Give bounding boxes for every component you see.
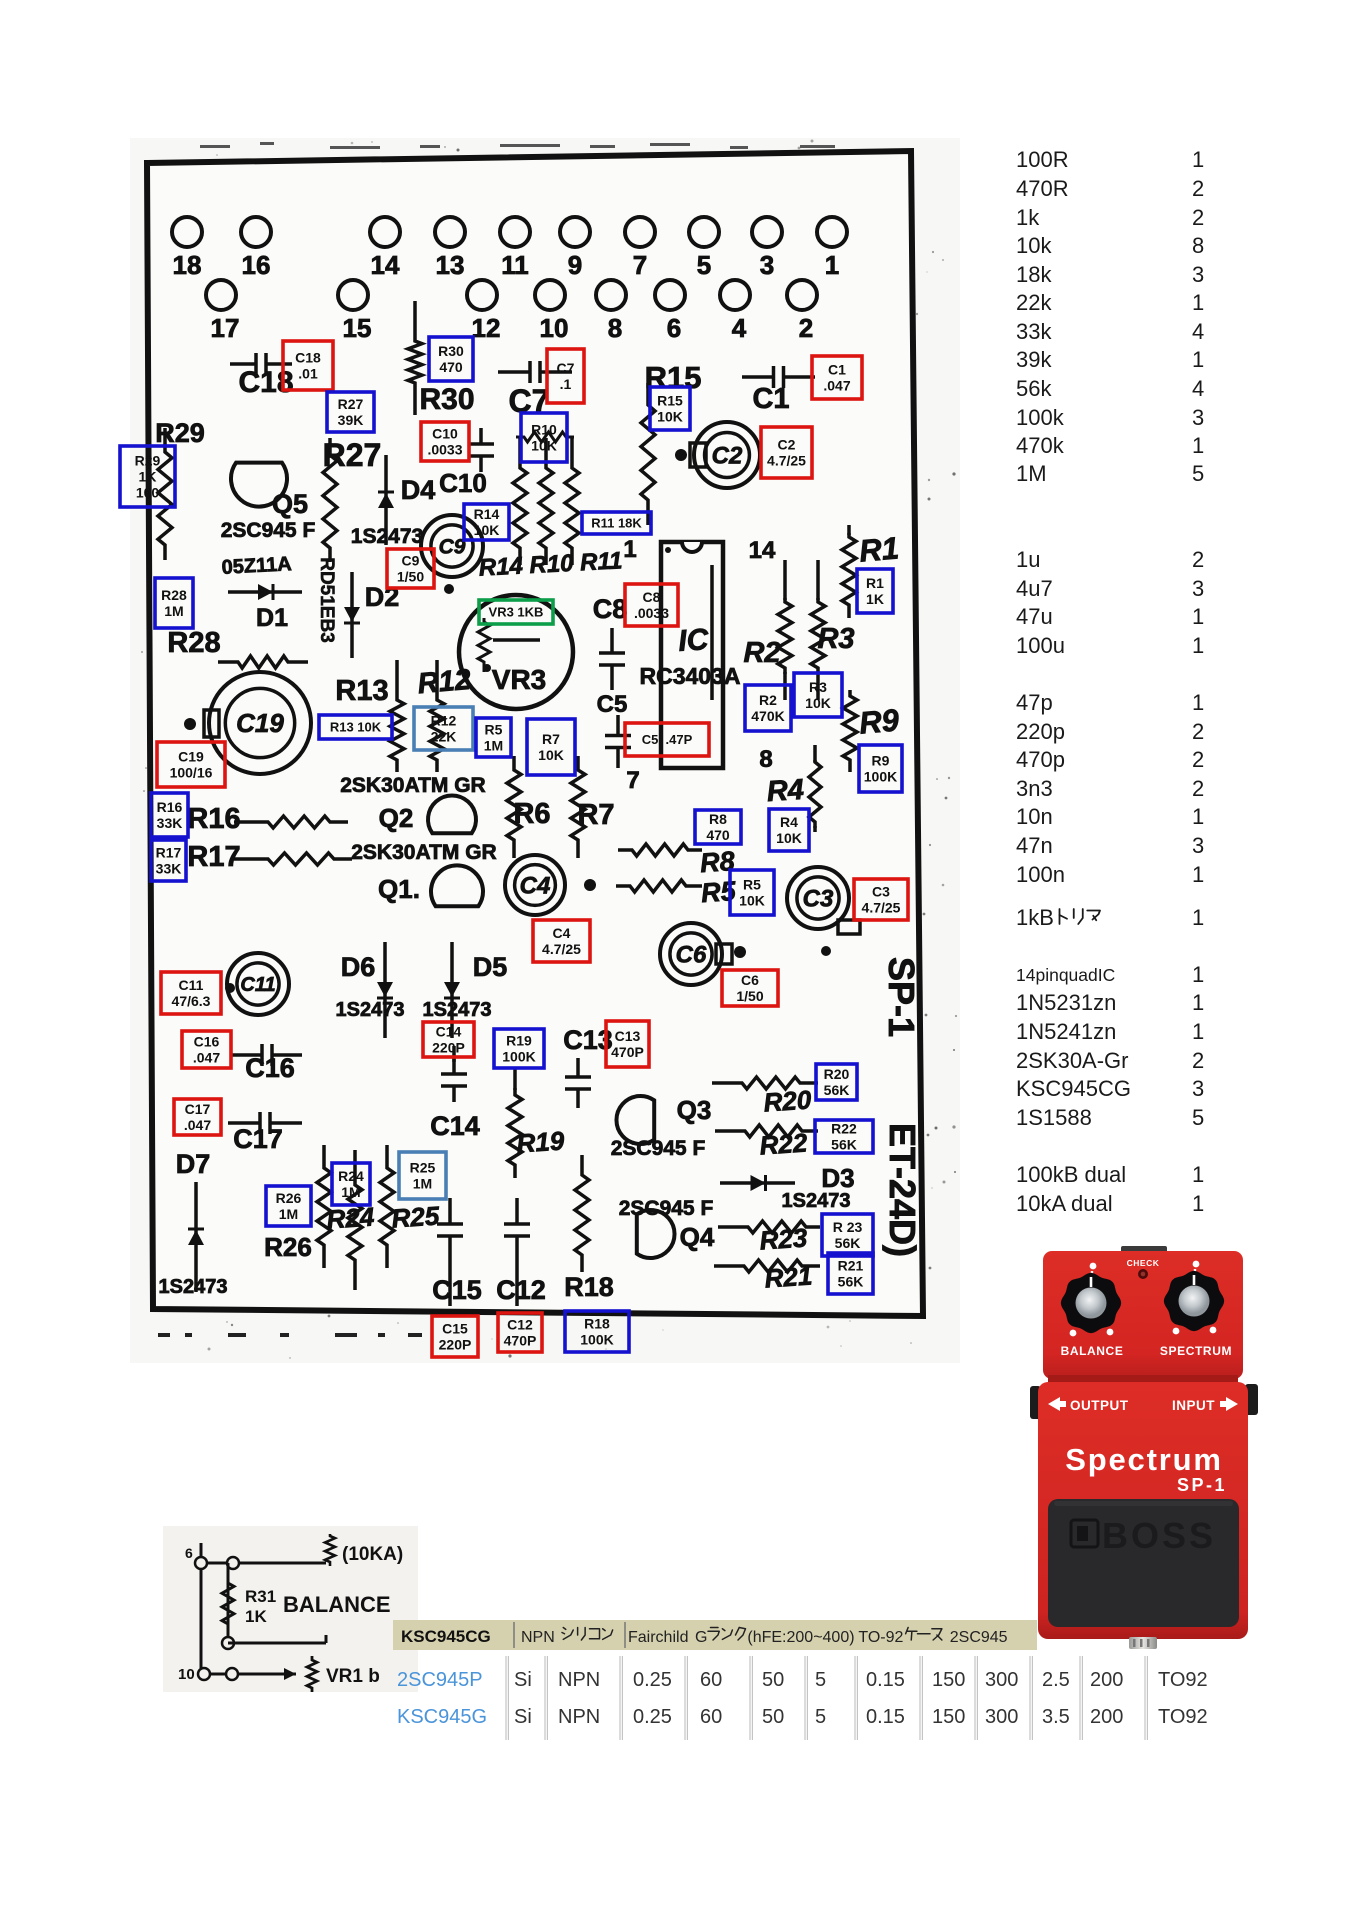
svg-text:C15: C15	[442, 1321, 468, 1337]
svg-text:R16: R16	[187, 803, 240, 835]
svg-text:33k: 33k	[1016, 319, 1052, 344]
svg-text:R1: R1	[858, 530, 901, 568]
svg-text:R7: R7	[577, 799, 614, 831]
svg-text:1kB: 1kB	[1016, 905, 1054, 930]
svg-text:D5: D5	[473, 952, 508, 982]
svg-text:8: 8	[1192, 233, 1204, 258]
svg-text:R13 10K: R13 10K	[330, 720, 382, 735]
svg-text:R3: R3	[817, 623, 854, 655]
svg-text:1M: 1M	[413, 1176, 432, 1192]
svg-text:22k: 22k	[1016, 290, 1052, 315]
svg-text:39k: 39k	[1016, 347, 1052, 372]
svg-text:3: 3	[1192, 1076, 1204, 1101]
svg-text:C1: C1	[752, 383, 789, 415]
svg-text:10K: 10K	[538, 747, 564, 763]
svg-text:4.7/25: 4.7/25	[542, 941, 581, 957]
svg-text:2SC945: 2SC945	[950, 1629, 1008, 1646]
svg-text:1S1588: 1S1588	[1016, 1105, 1092, 1130]
svg-text:R9: R9	[858, 702, 901, 740]
svg-text:C6: C6	[741, 972, 759, 988]
svg-text:C2: C2	[712, 442, 743, 469]
svg-text:C16: C16	[245, 1053, 295, 1083]
svg-text:1: 1	[1192, 905, 1204, 930]
svg-text:.0033: .0033	[634, 605, 669, 621]
svg-text:D3: D3	[821, 1163, 854, 1193]
svg-text:5: 5	[1192, 1105, 1204, 1130]
svg-text:300: 300	[985, 1706, 1018, 1728]
svg-text:C6: C6	[676, 941, 707, 968]
svg-text:39K: 39K	[338, 412, 364, 428]
svg-text:2SC945 F: 2SC945 F	[611, 1137, 706, 1160]
svg-text:470: 470	[706, 827, 730, 843]
svg-text:100k: 100k	[1016, 405, 1065, 430]
svg-text:1: 1	[1192, 1162, 1204, 1187]
svg-text:R19: R19	[516, 1125, 566, 1158]
svg-text:16: 16	[242, 250, 271, 280]
svg-text:Q2: Q2	[379, 803, 414, 833]
svg-text:3: 3	[1192, 833, 1204, 858]
svg-text:2: 2	[1192, 176, 1204, 201]
svg-text:14: 14	[749, 537, 776, 564]
svg-text:C3: C3	[803, 885, 834, 912]
svg-text:3: 3	[760, 250, 774, 280]
svg-text:3: 3	[1192, 576, 1204, 601]
svg-text:0.25: 0.25	[633, 1706, 672, 1728]
svg-text:100u: 100u	[1016, 633, 1065, 658]
svg-text:C17: C17	[185, 1101, 211, 1117]
svg-text:C11: C11	[240, 974, 275, 996]
svg-text:18: 18	[173, 250, 202, 280]
svg-text:IC: IC	[677, 623, 711, 658]
svg-text:(hFE:200~400): (hFE:200~400)	[747, 1629, 854, 1646]
svg-text:05Z11A: 05Z11A	[221, 553, 292, 579]
svg-text:D1: D1	[256, 604, 288, 632]
svg-text:C10: C10	[439, 468, 487, 498]
svg-text:1N5231zn: 1N5231zn	[1016, 990, 1116, 1015]
svg-text:R10: R10	[531, 422, 557, 438]
svg-text:150: 150	[932, 1706, 965, 1728]
svg-text:1: 1	[1192, 433, 1204, 458]
svg-text:5: 5	[697, 250, 711, 280]
svg-text:C9: C9	[439, 535, 466, 558]
svg-text:470K: 470K	[751, 708, 784, 724]
svg-text:C3: C3	[872, 884, 890, 900]
svg-text:6: 6	[185, 1545, 193, 1561]
svg-text:NPN: NPN	[558, 1669, 600, 1691]
svg-text:R18: R18	[584, 1316, 610, 1332]
svg-text:4: 4	[1192, 319, 1204, 344]
svg-text:R16: R16	[157, 799, 183, 815]
svg-text:1M: 1M	[341, 1184, 360, 1200]
svg-text:10K: 10K	[776, 830, 802, 846]
svg-text:100kB dual: 100kB dual	[1016, 1162, 1126, 1187]
svg-text:R20: R20	[824, 1066, 850, 1082]
svg-text:BALANCE: BALANCE	[1061, 1344, 1124, 1358]
svg-text:Q5: Q5	[272, 489, 308, 519]
svg-text:4u7: 4u7	[1016, 576, 1053, 601]
svg-text:33K: 33K	[156, 861, 182, 877]
svg-text:C18: C18	[295, 350, 321, 366]
svg-text:C19: C19	[236, 708, 284, 738]
svg-text:220P: 220P	[439, 1337, 472, 1353]
svg-text:R23: R23	[759, 1222, 809, 1255]
svg-text:10K: 10K	[739, 893, 765, 909]
svg-text:1K: 1K	[866, 591, 884, 607]
svg-text:1S2473: 1S2473	[782, 1190, 851, 1212]
svg-text:0.15: 0.15	[866, 1706, 905, 1728]
svg-text:C8: C8	[593, 594, 628, 624]
svg-text:OUTPUT: OUTPUT	[1070, 1398, 1129, 1413]
svg-text:C12: C12	[507, 1317, 533, 1333]
svg-text:C9: C9	[402, 553, 420, 569]
svg-text:C15: C15	[432, 1275, 482, 1305]
svg-text:R2: R2	[743, 637, 780, 669]
svg-text:NPN: NPN	[558, 1706, 600, 1728]
svg-text:SPECTRUM: SPECTRUM	[1160, 1344, 1232, 1358]
svg-text:1: 1	[1192, 147, 1204, 172]
svg-text:1: 1	[825, 250, 839, 280]
svg-text:2: 2	[1192, 547, 1204, 572]
svg-text:(10KA): (10KA)	[342, 1544, 403, 1565]
svg-text:SP-1: SP-1	[1177, 1475, 1227, 1495]
svg-text:1/50: 1/50	[397, 569, 424, 585]
svg-text:18k: 18k	[1016, 262, 1052, 287]
svg-text:NPN: NPN	[521, 1629, 555, 1646]
svg-text:2SC945 F: 2SC945 F	[221, 519, 316, 542]
svg-text:17: 17	[211, 313, 240, 343]
svg-text:R22: R22	[831, 1121, 857, 1137]
svg-text:100/16: 100/16	[170, 765, 213, 781]
svg-text:300: 300	[985, 1669, 1018, 1691]
svg-text:R9: R9	[872, 753, 890, 769]
svg-text:56K: 56K	[824, 1082, 850, 1098]
svg-text:10K: 10K	[474, 522, 500, 538]
svg-text:1: 1	[1192, 1191, 1204, 1216]
svg-text:R27: R27	[338, 396, 364, 412]
svg-text:15: 15	[343, 313, 372, 343]
svg-text:C10: C10	[432, 426, 458, 442]
svg-text:2: 2	[1192, 719, 1204, 744]
svg-text:D7: D7	[176, 1149, 211, 1179]
svg-text:14: 14	[371, 250, 400, 280]
svg-text:13: 13	[436, 250, 465, 280]
svg-text:470: 470	[439, 359, 463, 375]
svg-text:200: 200	[1090, 1669, 1123, 1691]
svg-text:10k: 10k	[1016, 233, 1052, 258]
svg-text:470R: 470R	[1016, 176, 1069, 201]
svg-text:2SC945 F: 2SC945 F	[619, 1197, 714, 1220]
svg-text:2: 2	[1192, 747, 1204, 772]
svg-text:100K: 100K	[864, 769, 897, 785]
svg-text:1S2473: 1S2473	[159, 1276, 228, 1298]
svg-text:G: G	[695, 1629, 707, 1646]
svg-text:.1: .1	[560, 376, 572, 392]
svg-text:3n3: 3n3	[1016, 776, 1053, 801]
svg-text:1: 1	[1192, 604, 1204, 629]
svg-text:.047: .047	[193, 1050, 220, 1066]
svg-text:R31: R31	[245, 1587, 276, 1606]
svg-text:R27: R27	[323, 437, 382, 473]
svg-text:ET-24D): ET-24D)	[882, 1123, 923, 1257]
svg-text:1: 1	[1192, 690, 1204, 715]
svg-text:1: 1	[1192, 1019, 1204, 1044]
svg-text:4: 4	[1192, 376, 1204, 401]
svg-text:C8: C8	[643, 589, 661, 605]
svg-text:6: 6	[667, 313, 681, 343]
svg-text:1: 1	[1192, 347, 1204, 372]
svg-text:220P: 220P	[432, 1040, 465, 1056]
svg-text:1: 1	[623, 536, 636, 563]
svg-text:100n: 100n	[1016, 862, 1065, 887]
svg-text:1S2473: 1S2473	[336, 999, 405, 1021]
svg-text:1S2473: 1S2473	[351, 525, 423, 548]
svg-text:1k: 1k	[1016, 205, 1040, 230]
svg-text:R26: R26	[276, 1190, 302, 1206]
svg-text:2.5: 2.5	[1042, 1669, 1070, 1691]
svg-text:R4: R4	[766, 774, 805, 809]
svg-text:1M: 1M	[484, 738, 503, 754]
svg-text:INPUT: INPUT	[1172, 1398, 1215, 1413]
svg-text:Fairchild: Fairchild	[628, 1629, 688, 1646]
svg-text:150: 150	[932, 1669, 965, 1691]
svg-text:50: 50	[762, 1669, 784, 1691]
svg-text:C17: C17	[233, 1124, 283, 1154]
svg-text:C16: C16	[194, 1034, 220, 1050]
svg-text:R30: R30	[438, 343, 464, 359]
svg-text:RD51EB3: RD51EB3	[316, 557, 337, 643]
svg-text:10kA dual: 10kA dual	[1016, 1191, 1113, 1216]
svg-text:TO92: TO92	[1158, 1706, 1208, 1728]
svg-text:5: 5	[815, 1706, 826, 1728]
svg-text:470P: 470P	[611, 1044, 644, 1060]
svg-text:R21: R21	[838, 1258, 864, 1274]
svg-text:R19: R19	[506, 1033, 532, 1049]
svg-text:10n: 10n	[1016, 804, 1053, 829]
svg-text:BOSS: BOSS	[1102, 1515, 1216, 1556]
svg-text:47n: 47n	[1016, 833, 1053, 858]
svg-text:R5: R5	[485, 722, 503, 738]
svg-text:D6: D6	[341, 952, 376, 982]
svg-text:56K: 56K	[838, 1274, 864, 1290]
svg-text:R28: R28	[161, 587, 187, 603]
svg-text:Q4: Q4	[680, 1222, 715, 1252]
svg-text:R28: R28	[167, 627, 220, 659]
svg-text:C19: C19	[178, 749, 204, 765]
svg-text:2: 2	[799, 313, 813, 343]
svg-text:C5 .47P: C5 .47P	[642, 732, 693, 747]
svg-text:SP-1: SP-1	[881, 957, 922, 1037]
svg-text:0.15: 0.15	[866, 1669, 905, 1691]
svg-text:R6: R6	[513, 798, 550, 830]
svg-text:R15: R15	[645, 360, 702, 395]
svg-text:R17: R17	[156, 845, 182, 861]
svg-text:100K: 100K	[502, 1049, 535, 1065]
svg-text:.047: .047	[184, 1117, 211, 1133]
svg-text:11: 11	[501, 250, 529, 280]
svg-text:4: 4	[732, 313, 747, 343]
svg-text:1: 1	[1192, 962, 1204, 987]
svg-text:3.5: 3.5	[1042, 1706, 1070, 1728]
svg-text:KSC945CG: KSC945CG	[1016, 1076, 1131, 1101]
svg-text:C11: C11	[179, 977, 204, 993]
svg-text:R 23: R 23	[833, 1219, 863, 1235]
svg-text:C5: C5	[597, 691, 628, 718]
svg-text:1u: 1u	[1016, 547, 1040, 572]
svg-text:1: 1	[1192, 990, 1204, 1015]
svg-text:47/6.3: 47/6.3	[172, 993, 211, 1009]
svg-text:R18: R18	[564, 1272, 614, 1302]
svg-text:KSC945G: KSC945G	[397, 1706, 487, 1728]
svg-text:33K: 33K	[157, 815, 183, 831]
svg-text:56K: 56K	[835, 1235, 861, 1251]
svg-text:Si: Si	[514, 1706, 532, 1728]
svg-text:1: 1	[1192, 804, 1204, 829]
svg-text:7: 7	[633, 250, 647, 280]
svg-text:VR1 b: VR1 b	[326, 1666, 380, 1687]
svg-text:50: 50	[762, 1706, 784, 1728]
svg-text:4.7/25: 4.7/25	[767, 453, 806, 469]
svg-text:R12: R12	[416, 664, 472, 701]
svg-text:100R: 100R	[1016, 147, 1069, 172]
svg-text:10K: 10K	[531, 438, 557, 454]
svg-text:1K: 1K	[245, 1607, 267, 1626]
svg-text:R4: R4	[780, 814, 798, 830]
svg-text:5: 5	[1192, 461, 1204, 486]
svg-text:R25: R25	[391, 1200, 441, 1233]
svg-text:1/50: 1/50	[736, 988, 763, 1004]
svg-text:60: 60	[700, 1669, 722, 1691]
svg-text:R22: R22	[759, 1127, 809, 1160]
svg-text:100: 100	[136, 485, 160, 501]
svg-text:470P: 470P	[504, 1333, 537, 1349]
svg-text:R20: R20	[763, 1084, 813, 1117]
svg-text:1M: 1M	[279, 1206, 298, 1222]
svg-text:2: 2	[1192, 776, 1204, 801]
svg-text:D4: D4	[401, 475, 436, 505]
svg-text:R26: R26	[264, 1232, 312, 1262]
svg-text:TO-92: TO-92	[858, 1629, 903, 1646]
svg-text:1: 1	[1192, 862, 1204, 887]
svg-text:8: 8	[759, 746, 772, 773]
svg-text:2SK30A-Gr: 2SK30A-Gr	[1016, 1048, 1129, 1073]
svg-text:8: 8	[608, 313, 622, 343]
svg-text:56K: 56K	[831, 1137, 857, 1153]
svg-text:10: 10	[540, 313, 569, 343]
svg-text:56k: 56k	[1016, 376, 1052, 401]
svg-text:1S2473: 1S2473	[423, 999, 492, 1021]
svg-text:60: 60	[700, 1706, 722, 1728]
svg-text:C1: C1	[828, 362, 846, 378]
svg-text:R12: R12	[431, 713, 457, 729]
svg-text:C13: C13	[615, 1028, 641, 1044]
svg-text:VR3: VR3	[492, 664, 546, 695]
svg-text:3: 3	[1192, 262, 1204, 287]
svg-text:10: 10	[178, 1666, 195, 1683]
svg-text:C7: C7	[557, 360, 575, 376]
svg-text:R24: R24	[338, 1168, 364, 1184]
svg-text:5: 5	[815, 1669, 826, 1691]
svg-text:R29: R29	[135, 453, 161, 469]
svg-text:14pinquadIC: 14pinquadIC	[1016, 965, 1115, 985]
svg-text:R25: R25	[410, 1160, 436, 1176]
svg-text:470p: 470p	[1016, 747, 1065, 772]
svg-text:220p: 220p	[1016, 719, 1065, 744]
svg-text:R11 18K: R11 18K	[591, 516, 642, 531]
svg-text:.01: .01	[298, 366, 318, 382]
svg-text:4.7/25: 4.7/25	[862, 900, 901, 916]
svg-text:R1: R1	[866, 575, 884, 591]
svg-text:0.25: 0.25	[633, 1669, 672, 1691]
svg-text:Q3: Q3	[677, 1095, 712, 1125]
svg-text:2: 2	[1192, 205, 1204, 230]
svg-text:RC3403A: RC3403A	[640, 663, 741, 689]
svg-text:R3: R3	[809, 679, 827, 695]
svg-text:2: 2	[1192, 1048, 1204, 1073]
svg-text:7: 7	[626, 767, 639, 794]
svg-text:C14: C14	[436, 1024, 462, 1040]
svg-text:KSC945CG: KSC945CG	[401, 1627, 491, 1646]
svg-text:47p: 47p	[1016, 690, 1053, 715]
svg-text:.047: .047	[823, 378, 850, 394]
svg-text:CHECK: CHECK	[1127, 1258, 1160, 1268]
svg-text:2SK30ATM GR: 2SK30ATM GR	[340, 774, 485, 797]
svg-text:1: 1	[1192, 633, 1204, 658]
svg-text:.0033: .0033	[427, 442, 462, 458]
svg-text:BALANCE: BALANCE	[283, 1592, 391, 1617]
svg-text:Spectrum: Spectrum	[1065, 1442, 1222, 1477]
svg-text:1M: 1M	[164, 603, 183, 619]
svg-text:2SK30ATM GR: 2SK30ATM GR	[351, 841, 496, 864]
svg-text:R14: R14	[474, 506, 500, 522]
svg-text:1: 1	[1192, 290, 1204, 315]
svg-text:200: 200	[1090, 1706, 1123, 1728]
svg-text:C2: C2	[778, 437, 796, 453]
svg-text:R5: R5	[700, 876, 738, 908]
svg-text:1N5241zn: 1N5241zn	[1016, 1019, 1116, 1044]
svg-text:R7: R7	[542, 731, 560, 747]
svg-text:9: 9	[568, 250, 582, 280]
svg-text:Si: Si	[514, 1669, 532, 1691]
svg-text:R21: R21	[764, 1260, 814, 1293]
svg-text:R2: R2	[759, 692, 777, 708]
svg-text:C14: C14	[430, 1111, 480, 1141]
svg-text:47u: 47u	[1016, 604, 1053, 629]
svg-text:R13: R13	[335, 675, 388, 707]
svg-text:10K: 10K	[805, 695, 831, 711]
svg-text:R8: R8	[709, 811, 727, 827]
svg-text:100K: 100K	[580, 1332, 613, 1348]
svg-text:C12: C12	[496, 1275, 546, 1305]
svg-text:1M: 1M	[1016, 461, 1047, 486]
svg-text:R17: R17	[187, 841, 240, 873]
svg-text:C4: C4	[553, 925, 571, 941]
svg-text:22K: 22K	[431, 729, 457, 745]
svg-text:C4: C4	[520, 872, 551, 899]
svg-text:TO92: TO92	[1158, 1669, 1208, 1691]
svg-text:R30: R30	[419, 383, 474, 416]
svg-text:470k: 470k	[1016, 433, 1065, 458]
svg-text:VR3 1KB: VR3 1KB	[489, 605, 544, 620]
svg-text:Q1.: Q1.	[378, 874, 420, 904]
svg-text:12: 12	[472, 313, 501, 343]
svg-text:R15: R15	[657, 393, 683, 409]
svg-text:10K: 10K	[657, 409, 683, 425]
svg-text:C18: C18	[238, 366, 293, 399]
svg-text:1K: 1K	[139, 469, 157, 485]
svg-text:2SC945P: 2SC945P	[397, 1669, 483, 1691]
svg-text:R5: R5	[743, 877, 761, 893]
svg-text:3: 3	[1192, 405, 1204, 430]
